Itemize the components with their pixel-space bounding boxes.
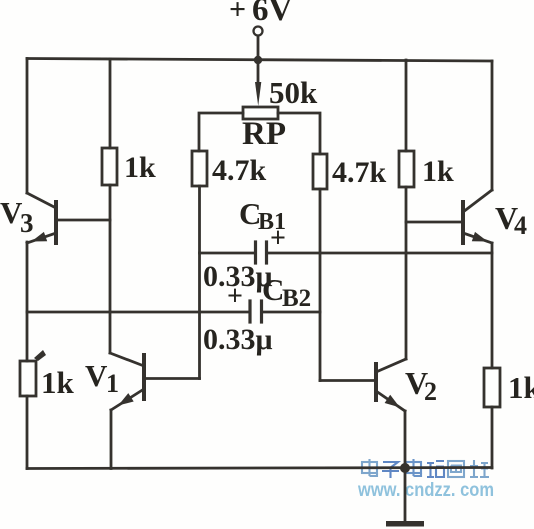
label CB2 [262,272,311,312]
RP wiper arrow [255,82,261,106]
svg-text:4.7k: 4.7k [332,156,387,189]
watermark line 1 (CJK site name, approximated) [362,459,489,478]
wire CB2 row right (CB2 to V2 base) [263,311,320,314]
wire V1 base node vertical [198,186,201,379]
svg-text:6V: 6V [252,0,293,28]
svg-text:0.33μ: 0.33μ [203,323,273,356]
label CB1 [239,196,286,235]
resistor 1k (V3 emitter load, lower left) [20,361,36,396]
transistor V1 body [110,353,144,410]
svg-text:1k: 1k [508,370,534,405]
svg-text:+: + [229,0,246,26]
capacitor CB1 plates [256,242,267,263]
capacitor CB2 plates [250,301,262,322]
wire V2 base node vertical [319,189,322,381]
svg-text:4.7k: 4.7k [212,154,267,187]
svg-text:B2: B2 [282,285,311,312]
power terminal circle +6V [254,27,263,36]
wire left edge middle (V3 emitter down to R 1k) [26,242,29,361]
wire CB2 row left (V3 emitter to CB2) [27,311,249,314]
wire top +6V supply rail [27,59,492,62]
wire left edge lower (R 1k to bottom rail) [26,396,29,469]
wire left edge upper (V3 collector to rail) [26,59,29,194]
label +6V [229,0,293,28]
svg-text:1: 1 [106,369,119,398]
junction dot at +6V rail [254,56,262,64]
svg-text:4: 4 [514,211,527,240]
label V3 [0,195,34,238]
wire CB1 row left (V1 base to CB1) [200,252,255,255]
svg-text:www. cndzz. com: www. cndzz. com [357,479,494,501]
wire RP left lead [199,113,243,151]
svg-text:RP: RP [242,116,286,152]
svg-text:+: + [227,281,243,312]
label V2 [405,365,437,406]
resistor 1k (V1 collector load, upper left) [102,148,117,185]
wire right edge upper (top rail to V4 collector) [491,61,494,190]
transistor V2 body [376,359,406,411]
junction dot bottom rail / ground [400,463,410,473]
svg-text:1k: 1k [41,365,75,400]
wire bottom ground rail [27,468,492,469]
small ink mark near lower-left resistor [34,350,46,361]
transistor V3 body [27,193,56,243]
label V4 [495,200,527,240]
wire V3 base line [56,219,110,222]
wire +6V terminal to rail [257,36,260,60]
wire V1 emitter to bottom rail [110,410,113,469]
wire V1 collector node vertical [109,185,112,353]
wire right 1k from top rail [405,60,408,151]
svg-text:50k: 50k [269,75,318,110]
wire V2 base line [320,379,376,382]
wire V2 emitter to bottom rail [404,411,407,468]
svg-text:2: 2 [424,377,437,406]
transistor V2 emitter arrow [385,395,400,408]
transistor V1 emitter arrow [118,393,133,405]
ground symbol bar [386,521,424,527]
transistor V3 emitter arrow [31,232,47,242]
resistor 1k (V4 emitter load, lower right) [484,368,500,407]
wire V4 base line [406,221,463,224]
wire V4 emitter down to CB1 row and R 1k [491,243,494,368]
svg-text:1k: 1k [124,151,156,184]
svg-text:3: 3 [20,208,34,238]
svg-text:+: + [270,223,286,254]
label V1 [85,358,119,398]
wire RP right lead [278,113,320,154]
resistor 4.7k (right, V2 base bias) [313,154,327,189]
potentiometer RP body [243,107,278,119]
resistor 1k (V2 collector load, upper right) [399,151,414,187]
transistor V4 emitter arrow [472,232,488,242]
wire V2 collector node vertical [405,187,408,359]
wire V1 base line [144,377,200,380]
svg-text:1k: 1k [422,155,454,188]
resistor 4.7k (left, V1 base bias) [192,151,207,186]
wire CB1 row right (CB1 to V4 emitter) [268,252,492,255]
transistor V4 body [463,190,492,243]
wire rail to RP wiper [257,60,260,86]
svg-text:V: V [85,358,108,393]
wire lower right 1k to bottom rail [491,407,494,468]
wire ground stem [404,468,407,521]
wire branch x=110 from top rail to R 1k [109,59,112,148]
